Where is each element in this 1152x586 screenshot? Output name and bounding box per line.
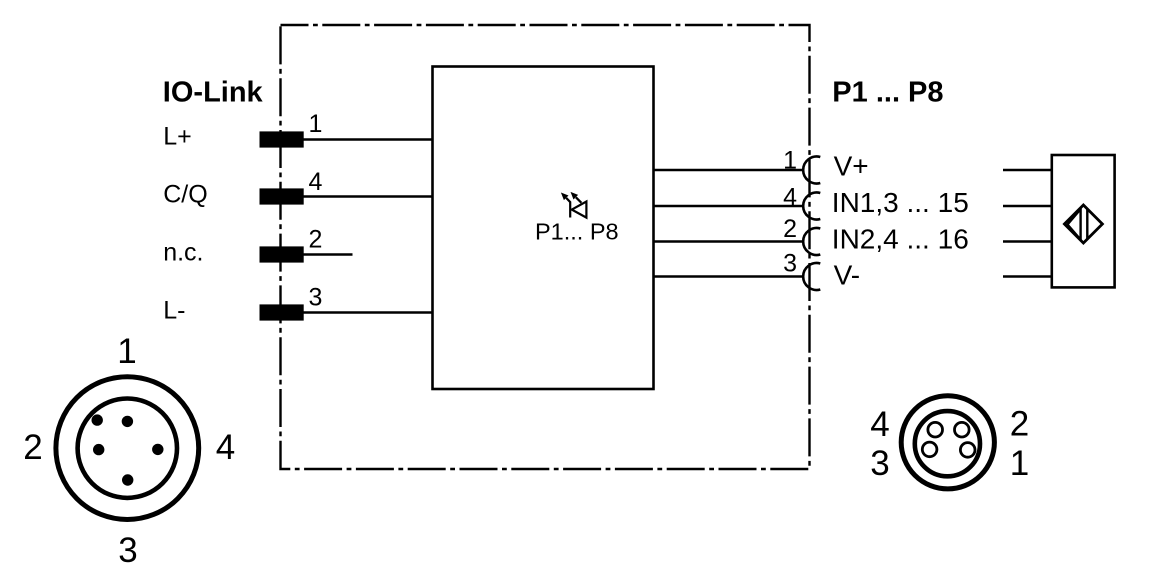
svg-text:4: 4 [216, 428, 235, 467]
svg-text:3: 3 [118, 531, 137, 570]
M8 socket hole bottom-left [922, 442, 937, 457]
svg-text:4: 4 [783, 184, 797, 212]
device box U1 [433, 67, 654, 390]
M12 pin hole bottom [122, 474, 133, 485]
pin 1 terminal (L+) [260, 131, 304, 147]
socket contact 4 [803, 193, 820, 220]
svg-text:3: 3 [783, 250, 797, 278]
svg-text:2: 2 [1010, 405, 1029, 444]
M12 pin hole top-left [92, 414, 103, 425]
wire port IN2,4 [654, 240, 804, 243]
wire port V+ [654, 169, 804, 172]
svg-text:n.c.: n.c. [163, 239, 203, 267]
wire port V- [654, 275, 804, 278]
svg-text:2: 2 [783, 215, 797, 243]
svg-text:4: 4 [870, 405, 889, 444]
M12 pin hole left [93, 444, 104, 455]
sensor box [1052, 155, 1115, 287]
svg-text:2: 2 [309, 226, 323, 254]
svg-text:V+: V+ [834, 150, 869, 181]
svg-text:3: 3 [870, 444, 889, 483]
sensor wire 3 [1003, 240, 1052, 243]
M12 pin hole right [152, 444, 163, 455]
M12 connector face inner ring [78, 399, 177, 498]
M8 socket hole bottom-right [960, 443, 975, 458]
LED arrowheads [561, 193, 569, 201]
sensor wire 2 [1003, 205, 1052, 208]
svg-text:1: 1 [1010, 444, 1029, 483]
wire n.c. stub [304, 253, 353, 256]
svg-text:1: 1 [783, 147, 797, 175]
socket contact 3 [803, 263, 820, 290]
socket contact 2 [803, 228, 820, 255]
wire C/Q to device box [304, 195, 434, 198]
socket contact 1 [803, 157, 820, 184]
svg-text:IN1,3 ... 15: IN1,3 ... 15 [832, 187, 969, 218]
svg-text:4: 4 [309, 168, 323, 196]
svg-text:L-: L- [163, 297, 185, 325]
wire L+ to device box [304, 138, 434, 141]
svg-text:L+: L+ [163, 122, 192, 150]
M12 connector face outer ring [56, 377, 199, 520]
svg-text:1: 1 [309, 110, 323, 138]
sensor symbol bar [1086, 208, 1088, 240]
svg-text:IO-Link: IO-Link [163, 76, 264, 108]
svg-text:C/Q: C/Q [163, 181, 207, 209]
M8 socket hole top-right [955, 422, 970, 437]
svg-text:V-: V- [834, 260, 860, 291]
sensor wire 1 [1003, 169, 1052, 172]
wire L- to device box [304, 311, 434, 314]
pin 4 terminal (C/Q) [260, 188, 304, 204]
svg-text:2: 2 [23, 428, 42, 467]
LED indicator symbol [566, 197, 586, 217]
M8 connector face outer ring [901, 396, 994, 489]
M8 socket hole top-left [928, 422, 943, 437]
svg-text:1: 1 [117, 332, 136, 371]
svg-text:IN2,4 ... 16: IN2,4 ... 16 [832, 223, 969, 254]
dash-dot enclosure border [281, 25, 810, 469]
sensor symbol triangle [1068, 209, 1081, 240]
svg-text:3: 3 [309, 284, 323, 312]
sensor symbol diamond [1064, 205, 1102, 243]
pin 3 terminal (L-) [260, 304, 304, 320]
svg-text:P1... P8: P1... P8 [535, 218, 619, 244]
sensor wire 4 [1003, 275, 1052, 278]
M12 pin hole top-center [122, 416, 133, 427]
svg-text:P1 ... P8: P1 ... P8 [832, 76, 943, 108]
wire port IN1,3 [654, 205, 804, 208]
M8 connector face inner ring [915, 411, 980, 476]
pin 2 terminal (n.c.) [260, 246, 304, 262]
